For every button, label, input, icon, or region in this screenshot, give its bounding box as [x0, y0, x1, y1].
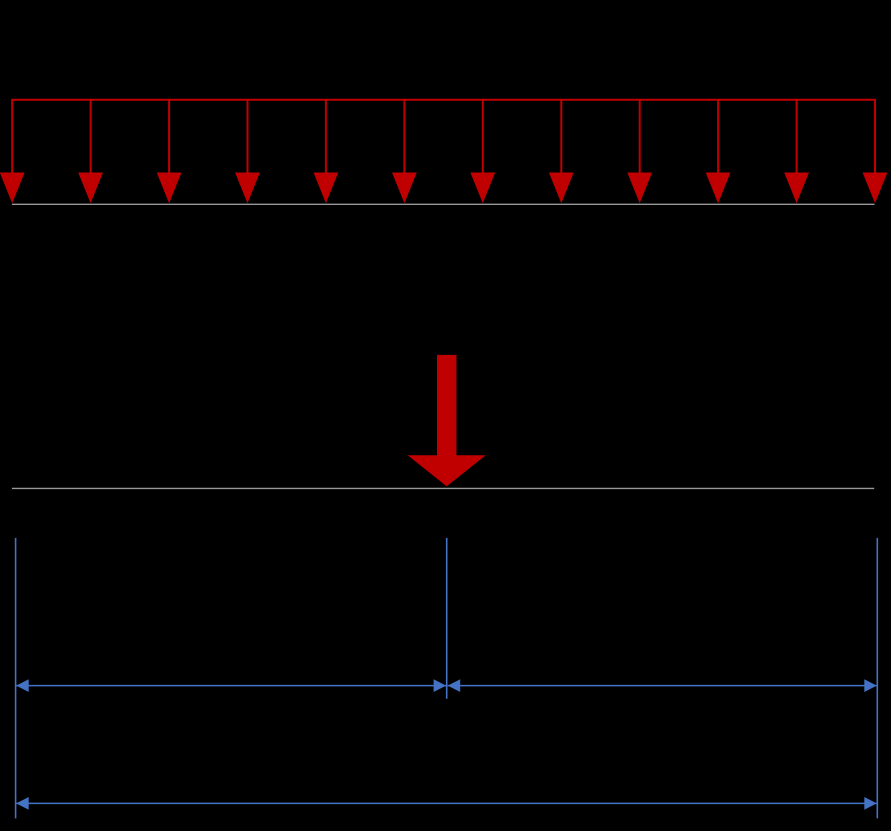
load arrow 11: [784, 100, 809, 204]
load arrow 12: [863, 100, 888, 204]
extension line center: [446, 538, 448, 699]
load arrow 6: [392, 100, 417, 204]
distributed load top line w: [11, 99, 876, 101]
dimension line L/2 left segment: [16, 679, 446, 692]
load arrow 4: [235, 100, 260, 204]
dimension line L/2 right segment: [448, 679, 877, 692]
load arrow 9: [627, 100, 652, 204]
load arrow 5: [314, 100, 339, 204]
load arrow 10: [706, 100, 731, 204]
load arrow 2: [78, 100, 103, 204]
resultant force arrow R: [408, 355, 486, 487]
beam line upper: [12, 203, 875, 205]
load arrow 1: [0, 100, 25, 204]
load arrow 3: [157, 100, 182, 204]
extension line right: [876, 538, 878, 819]
dimension line L full span: [16, 797, 877, 810]
extension line left: [15, 538, 17, 819]
beam line lower: [12, 487, 874, 489]
load arrow 8: [549, 100, 574, 204]
load arrow 7: [470, 100, 495, 204]
